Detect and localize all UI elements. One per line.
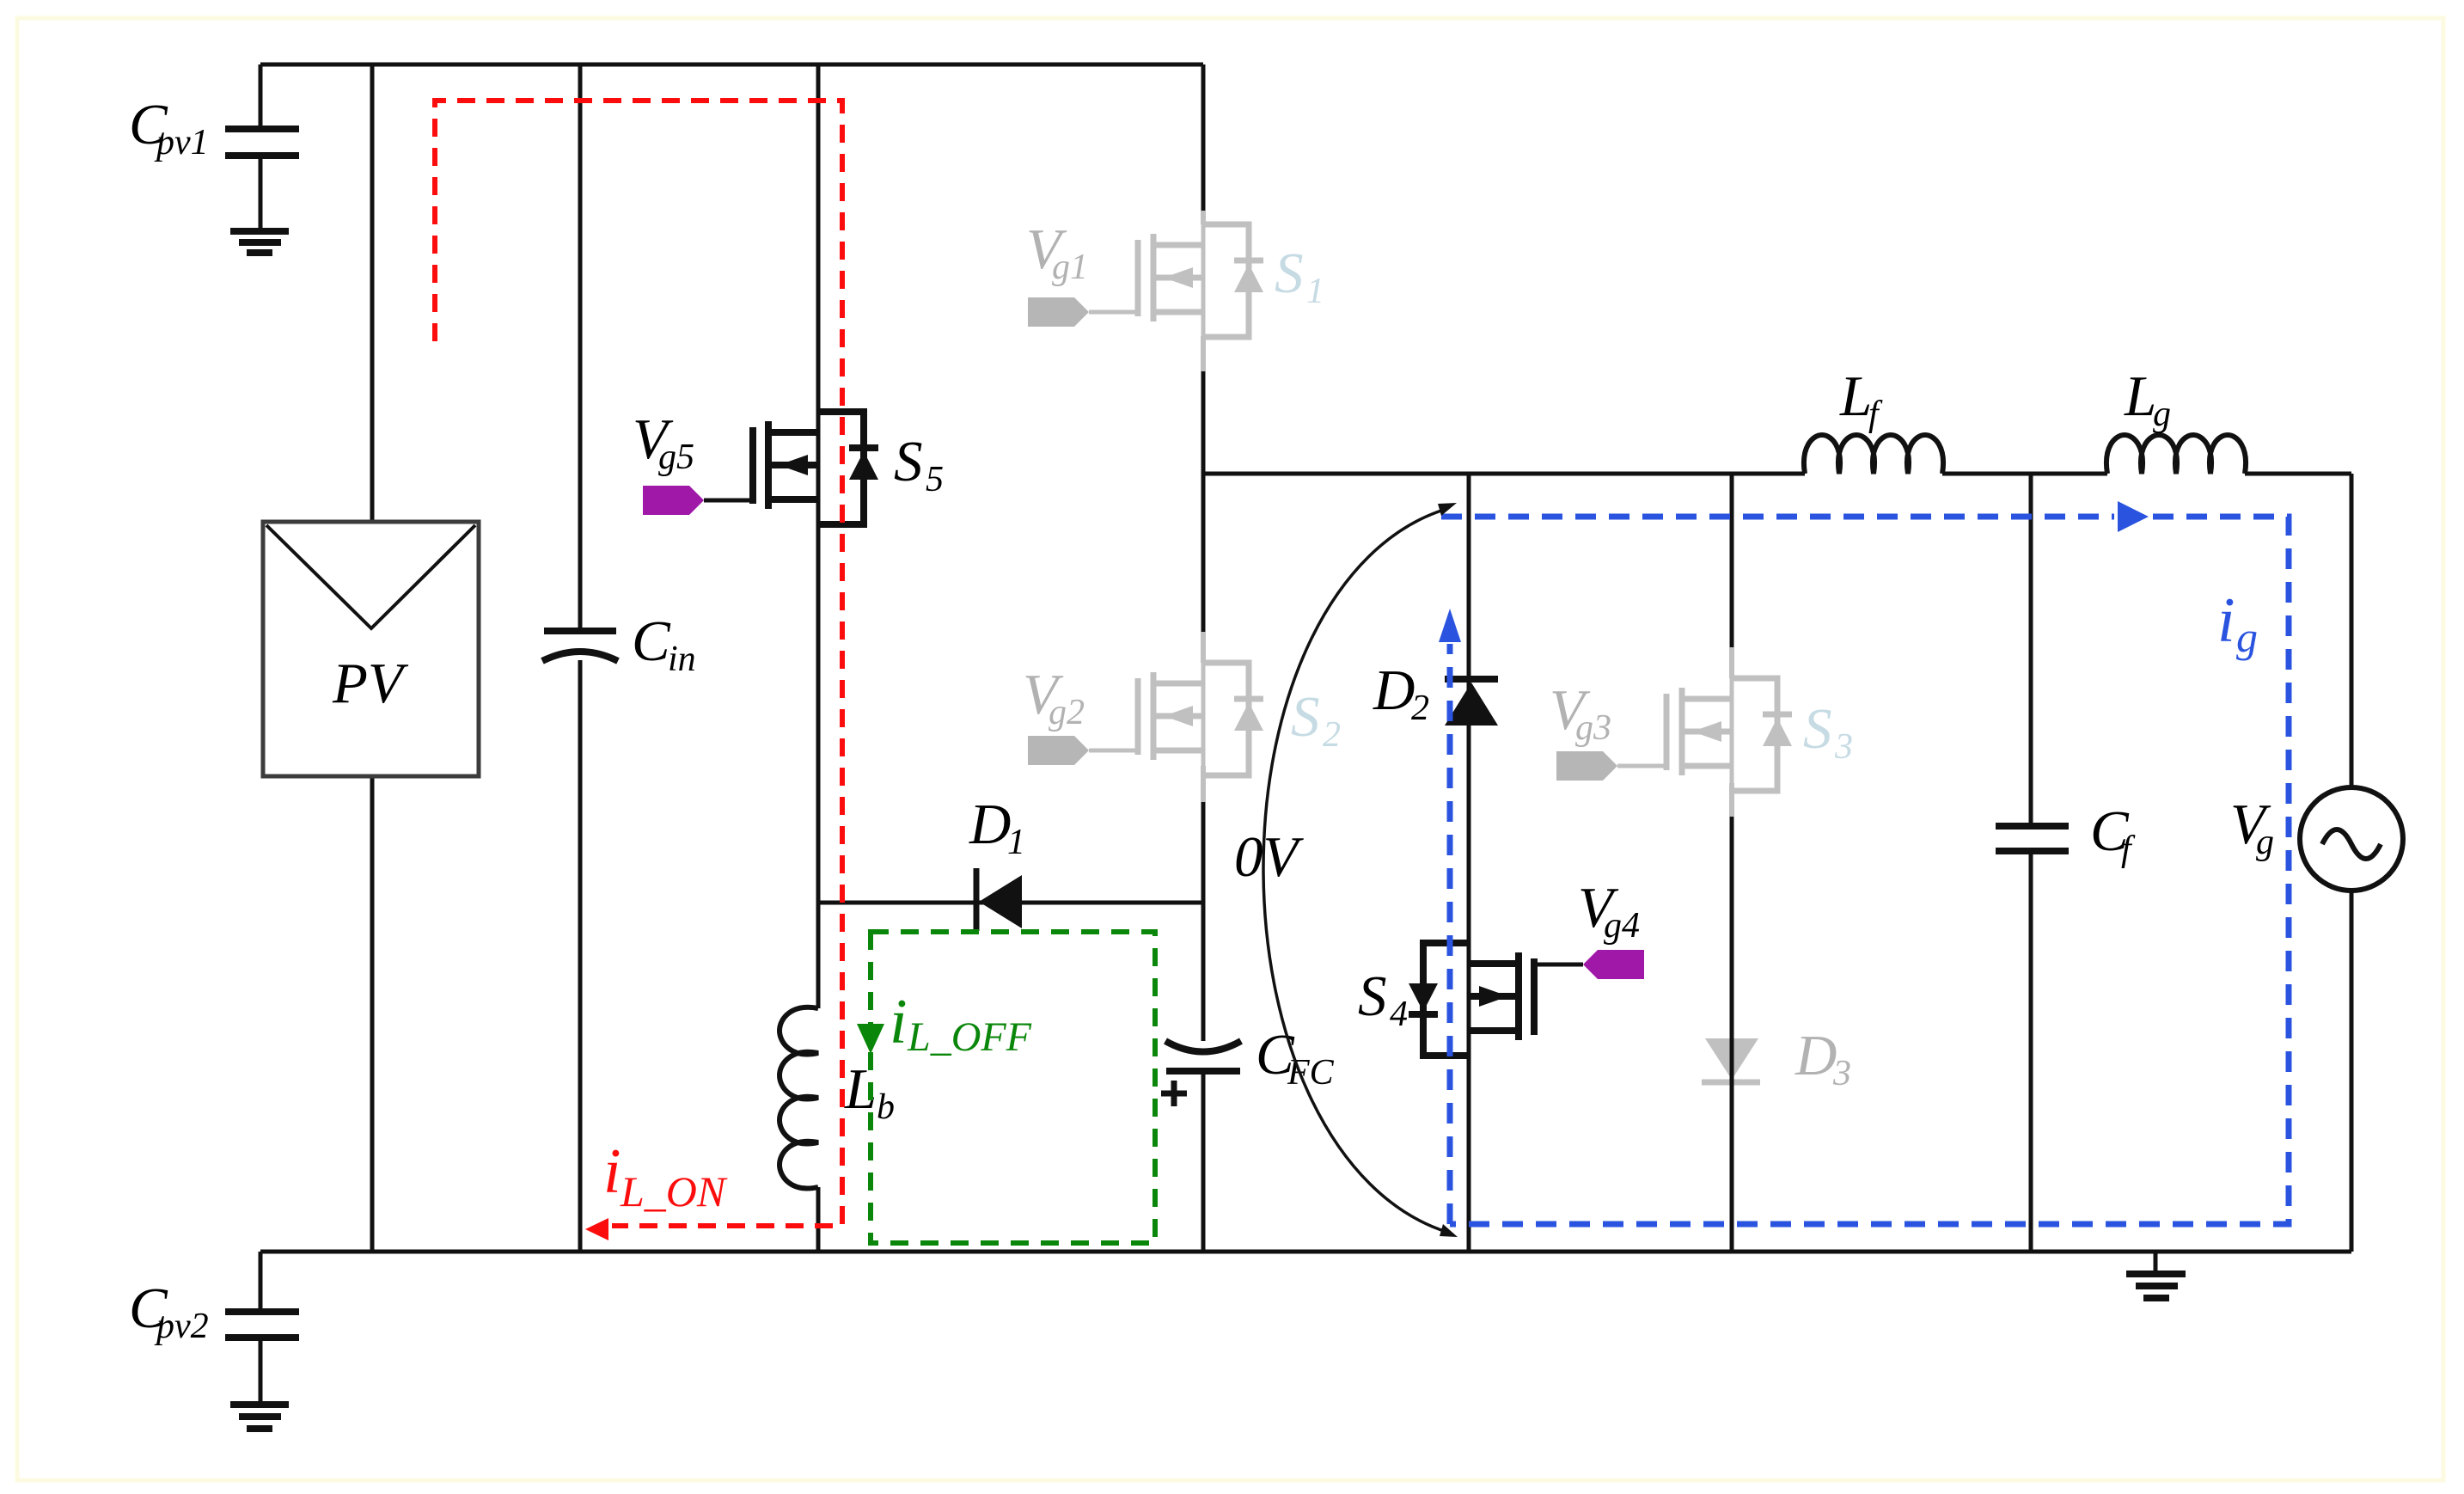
transistor S1 (inactive)	[1028, 211, 1263, 371]
svg-text:2: 2	[1323, 715, 1341, 755]
svg-text:in: in	[668, 640, 696, 679]
svg-text:4: 4	[1390, 995, 1408, 1034]
inductor Lb label	[844, 1057, 895, 1127]
ground for Cpv2	[230, 1405, 289, 1429]
switch S2 label	[1291, 685, 1341, 755]
svg-text:S: S	[894, 430, 923, 493]
gate signal Vg1 label	[1026, 217, 1088, 287]
gate signal Vg4 label	[1578, 876, 1640, 946]
svg-text:g4: g4	[1604, 906, 1640, 946]
diode D2	[1445, 679, 1498, 726]
wire top rail	[260, 63, 1203, 67]
green current path iL_OFF	[857, 932, 1155, 1243]
wire PV bottom to bottom rail	[370, 776, 375, 1252]
wire mid rail right segment	[2245, 472, 2351, 476]
svg-text:1: 1	[1007, 823, 1025, 862]
svg-text:b: b	[877, 1087, 895, 1127]
svg-text:pv1: pv1	[154, 123, 209, 162]
svg-text:g2: g2	[1049, 693, 1085, 732]
capacitor Cpv2	[225, 1252, 299, 1402]
svg-text:D: D	[1795, 1024, 1837, 1087]
svg-text:L_OFF: L_OFF	[907, 1014, 1032, 1060]
gate signal Vg5 label	[633, 407, 694, 477]
svg-text:g: g	[2153, 395, 2171, 434]
wire S5 branch upper	[816, 64, 821, 412]
current iL_ON label	[603, 1136, 728, 1215]
svg-text:PV: PV	[332, 652, 409, 715]
svg-text:1: 1	[1306, 272, 1324, 311]
wire Cf branch	[2029, 474, 2033, 1252]
inductor Lg	[2106, 435, 2246, 474]
AC source Vg label	[2230, 793, 2274, 862]
AC source Vg	[2300, 787, 2403, 891]
gate signal Vg2 label	[1023, 663, 1085, 732]
gate signal Vg3 label	[1550, 678, 1611, 748]
0V annotation arc	[1263, 503, 1458, 1237]
transistor S2 (inactive)	[1028, 632, 1263, 802]
svg-text:i: i	[890, 987, 908, 1057]
PV source box	[263, 522, 479, 776]
blue current path ig	[1439, 501, 2289, 1224]
svg-text:D: D	[969, 793, 1011, 856]
current iL_OFF label	[890, 987, 1032, 1060]
wire mid rail left segment	[1203, 472, 1805, 476]
capacitor Cf label	[2090, 799, 2136, 869]
wire bottom rail	[260, 1250, 2351, 1254]
svg-text:C: C	[632, 609, 671, 673]
svg-text:L: L	[1839, 364, 1872, 428]
svg-text:D: D	[1373, 658, 1415, 722]
plus polarity mark	[1161, 1081, 1187, 1106]
diode D1 label	[969, 793, 1025, 862]
transistor S3 (inactive)	[1556, 647, 1792, 817]
svg-text:g: g	[2256, 823, 2274, 862]
diode D2 label	[1373, 658, 1429, 728]
svg-text:i: i	[603, 1136, 621, 1207]
current ig label	[2217, 585, 2258, 661]
transistor S4	[1409, 943, 1644, 1056]
wire Cin branch bottom	[578, 660, 583, 1252]
wire S5 branch lower to Lb and rail	[816, 524, 821, 1252]
svg-text:g: g	[2236, 613, 2258, 661]
wire left PV branch vertical	[370, 64, 375, 522]
inductor Lf	[1804, 435, 1943, 474]
svg-text:S: S	[1275, 242, 1304, 305]
inductor Lg label	[2124, 364, 2171, 434]
wire Cin branch top	[578, 64, 583, 631]
node 0V label	[1234, 825, 1305, 889]
svg-text:g1: g1	[1052, 248, 1088, 287]
diode D3 (inactive)	[1702, 1038, 1760, 1082]
switch S1 label	[1275, 242, 1324, 311]
svg-text:L: L	[2124, 364, 2156, 428]
capacitor Cf	[1996, 826, 2069, 851]
svg-text:3: 3	[1832, 1054, 1851, 1093]
svg-text:S: S	[1803, 697, 1832, 761]
svg-text:i: i	[2217, 585, 2235, 656]
capacitor Cin	[542, 631, 618, 661]
wire mid rail middle segment	[1942, 472, 2107, 476]
svg-text:S: S	[1291, 685, 1320, 749]
svg-text:S: S	[1358, 964, 1387, 1028]
svg-text:2: 2	[1411, 689, 1429, 728]
wire S3-D3 branch	[1730, 474, 1734, 1252]
ground for grid	[2126, 1252, 2186, 1298]
red current path iL_ON	[435, 101, 842, 1240]
svg-text:g5: g5	[658, 438, 694, 477]
capacitor CFC label	[1256, 1023, 1335, 1093]
capacitor Cpv1	[225, 64, 299, 229]
svg-text:pv2: pv2	[154, 1307, 209, 1346]
switch S3 label	[1803, 697, 1853, 767]
svg-text:0V: 0V	[1234, 825, 1305, 889]
capacitor CFC	[1165, 1041, 1241, 1071]
wire Vg branch	[2350, 474, 2354, 1252]
switch S5 label	[894, 430, 944, 499]
diode D1	[976, 868, 1022, 931]
transistor S5	[643, 412, 878, 524]
inductor Lb	[780, 1007, 818, 1189]
capacitor Cin label	[632, 609, 696, 679]
svg-text:5: 5	[926, 460, 944, 499]
switch S4 label	[1358, 964, 1408, 1034]
svg-text:3: 3	[1834, 727, 1853, 767]
PV label	[332, 652, 409, 715]
wire S1-S2-CFC branch	[1201, 64, 1206, 1252]
inductor Lf label	[1839, 364, 1883, 434]
capacitor Cpv2 label	[129, 1277, 209, 1346]
svg-text:L_ON: L_ON	[620, 1167, 728, 1215]
wire D1 link	[818, 901, 1203, 905]
ground for Cpv1	[230, 231, 289, 253]
diode D3 label	[1795, 1024, 1851, 1093]
wire D2-S4 branch	[1467, 474, 1471, 1252]
capacitor Cpv1 label	[129, 93, 209, 162]
svg-text:g3: g3	[1575, 708, 1611, 748]
